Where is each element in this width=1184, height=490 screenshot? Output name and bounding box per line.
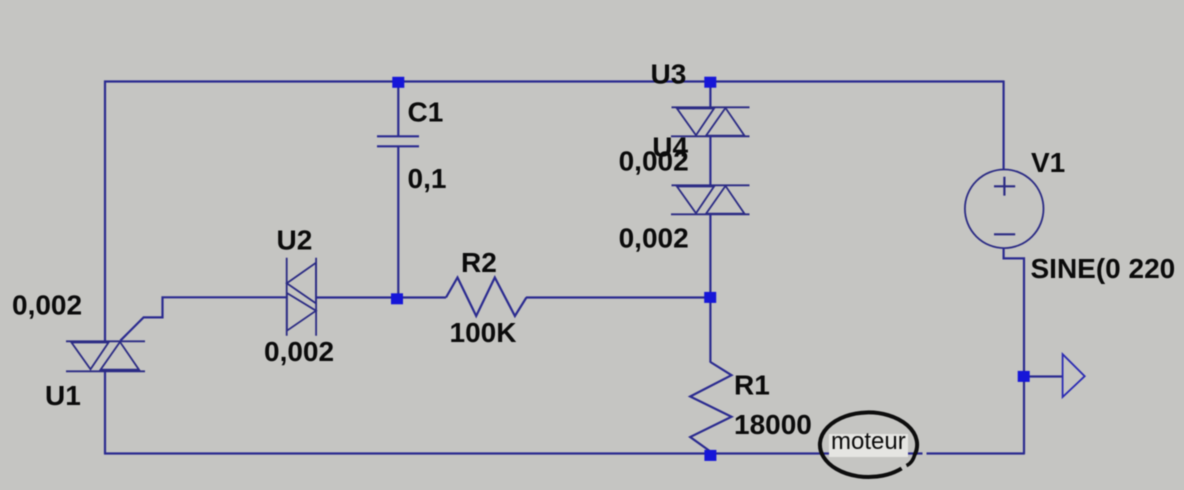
diac U4	[671, 185, 750, 214]
svg-text:R1: R1	[734, 370, 770, 401]
triac U1	[66, 341, 145, 371]
capacitor C1	[377, 136, 419, 146]
svg-text:18000: 18000	[734, 409, 812, 440]
junction node U3 top	[704, 77, 716, 88]
junction node R2 right	[704, 292, 716, 303]
svg-text:0,002: 0,002	[619, 145, 689, 176]
svg-text:100K: 100K	[450, 317, 517, 348]
wire U1 gate	[120, 297, 287, 340]
svg-text:U2: U2	[277, 225, 313, 256]
svg-text:C1: C1	[408, 97, 444, 128]
moteur ellipse	[820, 412, 917, 477]
junction node output	[1018, 371, 1030, 382]
wire U2 right	[316, 296, 398, 298]
wire U3 top lead	[709, 82, 711, 108]
svg-text:V1: V1	[1031, 147, 1065, 178]
svg-text:0,002: 0,002	[12, 289, 82, 320]
junction node R2 left	[391, 293, 403, 304]
wire left rail upper	[104, 81, 106, 343]
resistor R2	[446, 278, 526, 317]
svg-text:0,1: 0,1	[408, 163, 447, 194]
wire U3-U4 link	[709, 136, 711, 186]
wire V1 top lead	[1002, 81, 1004, 171]
wire bottom rail	[104, 452, 1025, 454]
wire left rail lower	[104, 370, 106, 454]
wire R2 left lead	[397, 296, 446, 298]
svg-text:R2: R2	[461, 247, 497, 278]
voltage source V1	[965, 170, 1044, 249]
wire C1 top lead	[397, 82, 399, 136]
output arrow	[1063, 354, 1085, 397]
svg-text:0,002: 0,002	[619, 222, 689, 253]
moteur patch	[829, 434, 908, 457]
resistor R1	[690, 362, 731, 452]
svg-text:U3: U3	[651, 58, 687, 89]
wire C1 bottom lead	[397, 146, 399, 298]
diac U3	[671, 107, 750, 136]
svg-text:0,002: 0,002	[264, 336, 334, 367]
wire top rail	[104, 80, 1004, 82]
wire U4 bottom lead	[709, 214, 711, 298]
wire R2 right lead	[526, 296, 711, 298]
wire arrow stub	[1024, 375, 1062, 377]
wire gap	[923, 452, 927, 457]
junction node C1 top	[392, 77, 404, 88]
wire R1 top lead	[709, 297, 711, 363]
diac U2	[287, 258, 316, 336]
wire V1 bottom lead	[1004, 248, 1024, 455]
junction node R1 bottom	[704, 450, 716, 461]
svg-text:SINE(0 220: SINE(0 220	[1031, 253, 1176, 284]
svg-text:moteur: moteur	[831, 428, 906, 455]
svg-text:U1: U1	[45, 380, 81, 411]
